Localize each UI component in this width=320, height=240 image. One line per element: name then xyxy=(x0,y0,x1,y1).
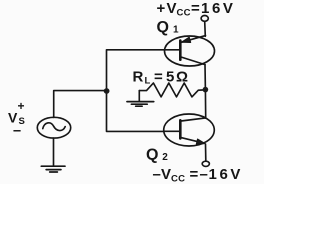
svg-text:=: = xyxy=(191,0,200,17)
terminal -VCC xyxy=(202,161,209,166)
svg-text:=: = xyxy=(154,69,163,86)
svg-text:V: V xyxy=(161,166,171,183)
supply label +VCC = 16V xyxy=(157,0,236,19)
label Q1 xyxy=(157,19,180,36)
svg-text:16V: 16V xyxy=(201,0,236,17)
wire output node to Q2 collector xyxy=(204,90,206,119)
wire Q2 emitter to -VCC terminal xyxy=(205,144,207,161)
wire +VCC terminal to Q1 emitter xyxy=(204,21,207,36)
resistor RL xyxy=(139,83,203,97)
svg-text:Q: Q xyxy=(157,19,169,36)
svg-text:1: 1 xyxy=(173,25,179,36)
ground at VS xyxy=(41,166,65,172)
label Q2 xyxy=(146,147,168,164)
svg-text:R: R xyxy=(133,69,144,86)
supply label -VCC = -16V xyxy=(153,166,244,185)
svg-text:Ω: Ω xyxy=(176,69,188,86)
wire VS to ground xyxy=(53,138,55,166)
source VS xyxy=(37,117,70,138)
svg-text:L: L xyxy=(145,76,151,87)
junction output node xyxy=(203,87,209,93)
svg-text:+: + xyxy=(157,0,166,17)
svg-text:–: – xyxy=(200,166,208,183)
terminal +VCC xyxy=(201,16,208,22)
svg-text:–: – xyxy=(13,123,21,139)
svg-text:Q: Q xyxy=(146,147,158,164)
ground at RL xyxy=(127,102,154,107)
junction input node xyxy=(104,88,110,94)
svg-text:–: – xyxy=(153,166,161,183)
transistor Q2 xyxy=(164,114,215,146)
label VS with polarity xyxy=(8,99,25,139)
transistor Q1 xyxy=(165,36,215,66)
svg-text:16V: 16V xyxy=(209,166,244,183)
label RL = 5 ohm xyxy=(133,69,189,87)
svg-text:CC: CC xyxy=(171,174,185,185)
svg-text:+: + xyxy=(18,99,25,113)
wire VS top to input node xyxy=(54,91,107,118)
wire Q1 collector to output node xyxy=(204,65,206,90)
svg-text:CC: CC xyxy=(177,8,191,19)
wire base bus from Q1 base to Q2 base xyxy=(107,50,165,132)
svg-text:V: V xyxy=(167,0,177,17)
wire RL to ground xyxy=(138,91,140,102)
svg-text:=: = xyxy=(190,166,199,183)
svg-text:2: 2 xyxy=(162,152,168,163)
svg-text:5: 5 xyxy=(166,69,174,86)
